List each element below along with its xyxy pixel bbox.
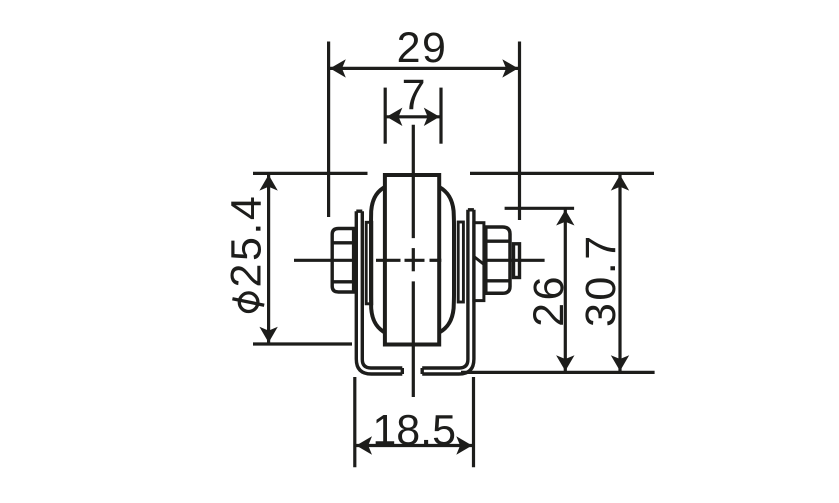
svg-text:30.7: 30.7 [577, 233, 625, 327]
svg-text:26: 26 [525, 274, 573, 327]
svg-text:25.4: 25.4 [223, 194, 271, 288]
svg-text:7: 7 [402, 71, 426, 119]
svg-text:29: 29 [397, 24, 448, 72]
svg-text:18.5: 18.5 [372, 407, 456, 455]
